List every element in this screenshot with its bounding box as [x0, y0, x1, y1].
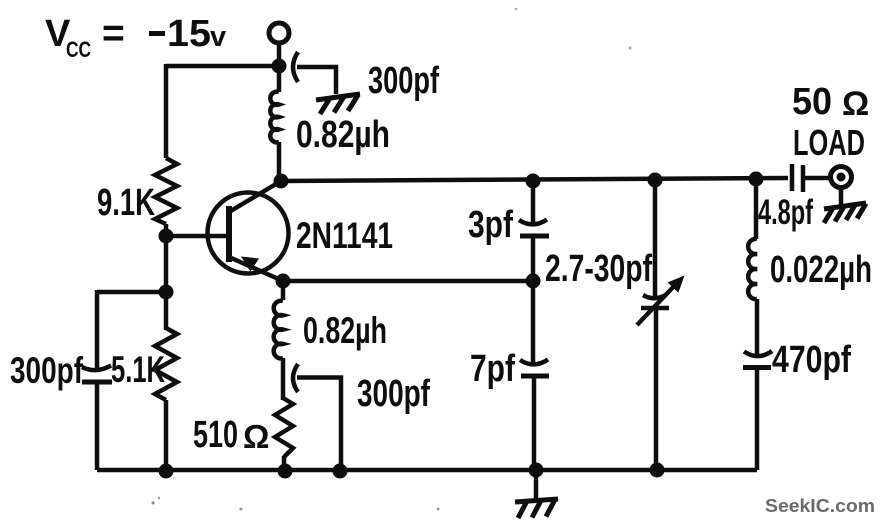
svg-text:2.7-30pf: 2.7-30pf — [545, 248, 652, 290]
label Vcc = -15v — [45, 12, 226, 62]
svg-text:9.1K: 9.1K — [97, 182, 155, 224]
capacitor C1 300pf (left) — [10, 350, 112, 391]
node bottom rail / 510 ohm junction — [278, 464, 293, 479]
label 50 ohm LOAD — [792, 81, 869, 163]
svg-text:CC: CC — [66, 37, 91, 62]
label 2.7-30pf — [545, 248, 652, 290]
resistor R3 510 ohm — [193, 398, 293, 470]
svg-text:2N1141: 2N1141 — [296, 215, 393, 256]
svg-text:300pf: 300pf — [357, 373, 430, 415]
node bottom rail / variable cap junction — [650, 463, 665, 478]
svg-text:Ω: Ω — [842, 85, 869, 123]
node left-branch junction — [159, 285, 174, 300]
terminal Vcc — [269, 23, 289, 66]
svg-text:510: 510 — [193, 414, 238, 456]
capacitor C7 470pf — [743, 339, 851, 381]
wire terminal to ground — [839, 187, 844, 205]
node top rail / variable cap junction — [648, 173, 663, 188]
node base junction — [159, 229, 174, 244]
node emitter junction — [276, 274, 291, 289]
ground (C2 bypass) — [316, 94, 360, 114]
wire top-left horizontal from left rail to Vcc node — [166, 64, 279, 69]
capacitor C8 4.8pf (output coupling) — [758, 164, 831, 232]
svg-text:50: 50 — [792, 81, 832, 123]
wire bottom rail — [97, 468, 757, 473]
node collector junction — [274, 174, 289, 189]
wire middle node down to 7pf — [531, 281, 536, 366]
wire left branch horizontal at base node — [97, 290, 166, 295]
svg-text:7pf: 7pf — [470, 348, 515, 390]
svg-text:3pf: 3pf — [468, 204, 513, 246]
svg-text:SeekIC.com: SeekIC.com — [765, 496, 875, 516]
svg-text:=: = — [102, 12, 125, 55]
svg-text:0.82µh: 0.82µh — [296, 114, 390, 156]
svg-text:Ω: Ω — [243, 418, 269, 455]
svg-text:15: 15 — [167, 13, 211, 55]
wire left rail upper (to 9.1K top) — [164, 64, 169, 158]
svg-text:4.8pf: 4.8pf — [758, 193, 813, 232]
transistor Q1 2N1141 — [166, 181, 393, 281]
node top rail / output tank junction — [749, 172, 764, 187]
capacitor C6 2.7-30pf variable — [637, 180, 685, 470]
scan noise specks — [152, 8, 632, 511]
inductor L2 0.82uh (emitter) — [274, 281, 387, 400]
inductor L3 0.022uh — [748, 179, 872, 356]
wire C2 to ground — [297, 67, 336, 94]
svg-text:470pf: 470pf — [772, 339, 851, 381]
svg-text:v: v — [210, 21, 226, 53]
wire 3pf column top — [531, 181, 536, 224]
capacitor C2 300pf (bypass at Vcc) curved plate — [293, 52, 439, 102]
resistor R1 9.1K — [97, 158, 177, 224]
node top rail / 3pf junction — [526, 174, 541, 189]
wire left branch below C1 to bottom rail — [95, 382, 100, 470]
svg-text:LOAD: LOAD — [793, 122, 865, 163]
capacitor C3 300pf (emitter bypass) curved plate — [293, 364, 430, 415]
watermark SeekIC.com — [765, 496, 875, 516]
terminal output to load — [831, 167, 852, 188]
wire 470pf to bottom rail corner — [755, 368, 760, 470]
resistor R2 5.1K — [111, 328, 177, 400]
ground (main, below bottom rail) — [515, 470, 558, 518]
node middle rail / 7pf junction — [526, 274, 541, 289]
wire C3 branch to bottom rail — [297, 378, 341, 471]
node Vcc junction — [272, 59, 287, 74]
svg-text:5.1K: 5.1K — [111, 349, 165, 390]
node bottom rail / C3 branch junction — [333, 464, 348, 479]
ground (load terminal) — [824, 203, 866, 223]
wire left rail middle (9.1K bottom through base node to 5.1K top) — [164, 224, 169, 330]
wire left rail lower (5.1K bottom to ground rail) — [164, 400, 169, 470]
wire left branch down to C1 — [95, 290, 100, 372]
capacitor C5 7pf — [470, 348, 549, 390]
wire top rail (collector to output coupling cap) — [281, 178, 788, 181]
node bottom rail / ground junction — [529, 463, 544, 478]
svg-text:300pf: 300pf — [10, 350, 84, 391]
inductor L1 0.82uh (collector choke) — [270, 66, 390, 181]
wire 3pf to middle node — [531, 236, 536, 281]
svg-text:300pf: 300pf — [368, 60, 439, 102]
svg-text:0.82µh: 0.82µh — [303, 310, 387, 351]
capacitor C4 3pf — [468, 204, 549, 246]
svg-text:0.022µh: 0.022µh — [770, 249, 872, 291]
node bottom rail / left rail junction — [159, 464, 174, 479]
wire middle rail (emitter to 3pf/7pf node) — [283, 279, 533, 284]
wire 7pf to bottom rail — [532, 376, 537, 470]
